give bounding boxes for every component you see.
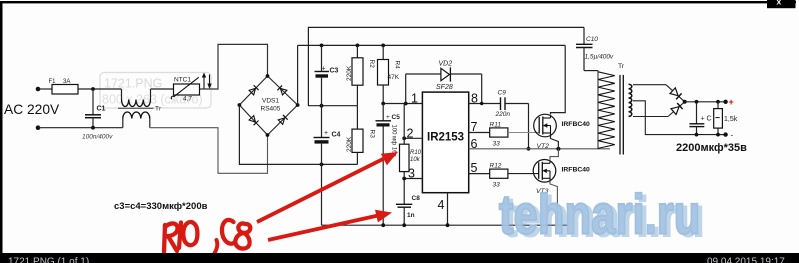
svg-text:AC 220V: AC 220V [4, 102, 60, 117]
svg-text:Тг: Тг [155, 106, 162, 113]
wire C4 bottom to ground rail [321, 164, 323, 225]
red annotation arrow to R10 [257, 152, 398, 222]
wire R12 to VT3 gate [508, 173, 539, 175]
filter choke Tr1 [118, 89, 162, 128]
wire pin2 [404, 137, 422, 139]
wire choke bottom to bridge AC2 [150, 128, 268, 174]
svg-text:+: + [322, 66, 326, 73]
viewer bottom bar [0, 253, 799, 263]
node rectifier output junction [683, 100, 687, 104]
svg-text:-: - [731, 131, 734, 140]
svg-text:220K: 220K [346, 65, 353, 81]
wire secondary bottom tap [633, 116, 668, 118]
svg-text:C9: C9 [498, 90, 507, 97]
wire VT2 source to Vs node [551, 135, 559, 148]
fuse F1 3A [49, 79, 79, 94]
node C1 top junction [91, 87, 95, 91]
node output plus terminal [723, 100, 727, 104]
node VD2 cathode junction [480, 102, 483, 105]
bridge rectifier VDS1 RS405 [238, 74, 300, 137]
capacitor C9 220n [495, 90, 529, 119]
svg-text:3A: 3A [63, 79, 70, 85]
svg-text:1: 1 [411, 92, 418, 106]
svg-text:4,7: 4,7 [183, 96, 192, 103]
transistor VT3 IRFBC40 [533, 160, 590, 196]
wire NTC to bridge AC1 [200, 44, 268, 89]
node output resistor bottom [716, 133, 720, 137]
svg-text:VD2: VD2 [439, 61, 453, 68]
svg-text:47K: 47K [388, 74, 400, 81]
svg-text:C4: C4 [332, 132, 341, 139]
wire secondary top tap [633, 84, 666, 86]
svg-text:R4: R4 [394, 61, 401, 70]
arrow down symbol [207, 75, 211, 90]
svg-text:1,5k: 1,5k [724, 116, 738, 123]
svg-text:R12: R12 [490, 163, 502, 170]
node output cap bottom [695, 133, 699, 137]
viewer frame left bar [0, 1, 3, 253]
svg-text:x: x [777, 0, 782, 7]
node R4/C5 junction [381, 102, 385, 106]
wire C10 to transformer primary [584, 70, 598, 72]
node C8 ground [402, 223, 406, 227]
svg-text:10k: 10k [410, 157, 421, 163]
svg-text:VT2: VT2 [537, 143, 550, 150]
svg-text:SF28: SF28 [436, 84, 453, 91]
svg-text:R3: R3 [369, 130, 376, 139]
svg-text:IRFBC40: IRFBC40 [562, 121, 591, 128]
wire DC+ rail [298, 44, 566, 46]
red annotation text C8 [222, 220, 250, 249]
svg-text:c3=c4=330мкф*200в: c3=c4=330мкф*200в [114, 201, 208, 212]
node R4 top [381, 44, 385, 48]
svg-text:+: + [324, 130, 328, 137]
red annotation text R10 [164, 222, 197, 252]
red annotation comma [213, 240, 218, 256]
viewer frame top bar [0, 1, 796, 3]
svg-text:09.04.2015 19:17: 09.04.2015 19:17 [707, 257, 785, 263]
svg-text:IRFBC40: IRFBC40 [562, 167, 591, 174]
svg-text:F1: F1 [49, 79, 57, 85]
svg-text:+: + [729, 97, 734, 107]
node Vs midpoint junction [556, 147, 560, 151]
svg-text:C5: C5 [392, 114, 401, 121]
node output resistor top [716, 100, 720, 104]
wire bridge minus to DC- rail [239, 105, 357, 164]
svg-text:VDS1: VDS1 [262, 98, 279, 105]
wire bridge plus up to DC+ rail [297, 45, 299, 105]
svg-text:tehnari.ru: tehnari.ru [499, 183, 700, 245]
thermistor NTC1 [171, 77, 199, 103]
node C9/Vs junction [527, 147, 531, 151]
svg-text:33: 33 [493, 141, 501, 148]
capacitor C8 1n [396, 195, 420, 225]
capacitor C4 [314, 106, 341, 165]
node pin3/R10 bottom junction [402, 177, 406, 181]
node C3 bottom / C4 top [320, 104, 324, 108]
wire pin3 [404, 178, 422, 180]
node AC terminal bottom [36, 125, 41, 130]
capacitor C3 [315, 45, 339, 105]
capacitor C1 [82, 89, 113, 141]
node C4 bottom on DC- rail [320, 163, 324, 167]
transistor VT2 IRFBC40 [534, 114, 590, 150]
svg-text:220n: 220n [495, 111, 511, 118]
svg-text:RS405: RS405 [261, 106, 281, 113]
wire fuse to choke [78, 88, 122, 90]
svg-text:1n: 1n [407, 212, 415, 219]
node C1 bottom junction [91, 126, 95, 130]
wire R11 to VT2 gate [508, 132, 539, 134]
svg-text:220K: 220K [346, 136, 353, 152]
node pin2/R10 top junction [402, 136, 406, 140]
svg-text:4: 4 [438, 198, 445, 212]
svg-text:+: + [386, 114, 390, 121]
svg-text:100 мф 16в: 100 мф 16в [391, 125, 397, 157]
svg-text:5: 5 [471, 161, 478, 175]
svg-text:C10: C10 [586, 36, 598, 43]
node VD2 anode junction [404, 102, 408, 106]
svg-text:+ C: + C [701, 116, 712, 123]
wire choke to NTC [151, 88, 174, 90]
svg-text:C1: C1 [97, 106, 106, 113]
resistor R 1,5k [714, 102, 738, 135]
wire midpoint rail to C10 [308, 27, 584, 105]
watermark tehnari.ru [499, 183, 704, 248]
node AC terminal top [36, 87, 41, 92]
arrow up symbol [202, 73, 206, 89]
node output cap top [695, 100, 699, 104]
svg-text:2200мкф*35в: 2200мкф*35в [676, 142, 747, 154]
svg-text:C8: C8 [412, 195, 421, 202]
resistor R10 10k [400, 104, 422, 205]
watermark filename box top-left [100, 73, 211, 109]
wire VT2 drain to DC+ rail [551, 45, 566, 114]
svg-text:C3: C3 [330, 68, 339, 75]
wire AC bottom [38, 127, 123, 129]
node C3 top [320, 44, 324, 48]
resistor R4 47K [378, 45, 401, 103]
wire pin7 [469, 132, 490, 134]
diode VD2 SF28 [406, 61, 482, 104]
wire pin4 to ground [447, 193, 449, 226]
capacitor C5 100mf [376, 104, 401, 226]
capacitor C output 2200mkf [689, 102, 711, 135]
resistor R11 33 [490, 122, 508, 148]
IC IR2153 U1 [407, 92, 479, 213]
viewer close button [767, 0, 796, 8]
node C5 ground [381, 223, 385, 227]
svg-text:NTC1: NTC1 [174, 77, 191, 84]
resistor R3 220K [346, 106, 376, 165]
rectifier diode VD3 top [666, 85, 685, 102]
rectifier diode VD4 bottom [668, 102, 685, 117]
svg-text:IR2153: IR2153 [427, 132, 464, 144]
wire AC top to fuse [38, 88, 52, 90]
red annotation arrow to C8 [268, 210, 392, 240]
wire output plus rail [685, 101, 726, 103]
wire pin6 Vs [469, 148, 610, 150]
svg-text:1,5µ/400v: 1,5µ/400v [585, 54, 614, 61]
wire VT3 source to ground rail [550, 181, 557, 226]
wire ground rail [322, 224, 569, 226]
svg-text:R2: R2 [368, 60, 375, 69]
svg-text:R11: R11 [490, 122, 502, 129]
resistor R2 220K [346, 45, 375, 105]
node R2 top [356, 44, 360, 48]
wire pin5 [469, 173, 490, 175]
svg-text:Tr: Tr [618, 63, 625, 70]
wire pin8 [469, 103, 501, 105]
wire pin1 net [383, 103, 422, 105]
capacitor C10 1,5u/400v [576, 27, 614, 70]
svg-text:1721.PNG (1 of 1): 1721.PNG (1 of 1) [8, 257, 89, 263]
svg-text:100n/400v: 100n/400v [82, 134, 113, 141]
svg-text:R10: R10 [410, 150, 422, 156]
wire VT3 drain to Vs node [550, 149, 558, 160]
node output minus terminal [723, 132, 727, 136]
node pin4 ground [446, 223, 450, 227]
wire C9 to Vs node [528, 104, 530, 149]
transformer Tr [598, 63, 632, 155]
wire secondary center tap [633, 101, 717, 135]
resistor R12 33 [490, 163, 508, 189]
wire output minus rail [717, 134, 726, 136]
